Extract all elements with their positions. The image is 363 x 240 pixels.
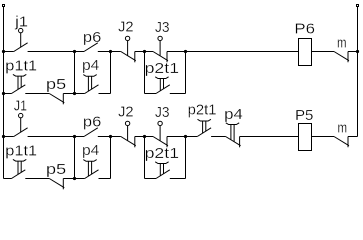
wire rung1 branch segments <box>4 93 186 95</box>
svg-text:m: m <box>337 34 347 51</box>
contact p5 (NC) rung1 <box>49 94 64 105</box>
contact m (NC) rung2 <box>334 137 349 148</box>
right power rail L2 <box>357 5 359 137</box>
wire rung1 main segments <box>4 51 358 53</box>
contact p5 (NC) rung2 <box>49 179 64 190</box>
svg-text:J3: J3 <box>155 19 170 36</box>
pushbutton contact J3 (NC) rung1 <box>153 36 168 62</box>
svg-text:J1: J1 <box>14 97 27 114</box>
svg-text:p5: p5 <box>46 76 66 93</box>
svg-text:p2t1: p2t1 <box>145 145 179 162</box>
svg-text:p4: p4 <box>82 57 99 74</box>
timed contact p2t1 (NO, delay) rung2 branch <box>155 162 170 179</box>
svg-text:p1t1: p1t1 <box>5 142 37 159</box>
left power rail L1 <box>3 5 5 179</box>
svg-text:p1t1: p1t1 <box>5 57 37 74</box>
wire rung2 main segments <box>4 136 358 138</box>
timed contact p1t1 (NO, delay) rung1 <box>12 74 27 93</box>
svg-text:p6: p6 <box>83 29 101 46</box>
svg-text:p4: p4 <box>224 106 243 123</box>
svg-text:p2t1: p2t1 <box>145 60 179 77</box>
junction dots rung1 <box>2 50 359 95</box>
timed contact p4 (NO, delay) rung2 branch <box>83 160 98 179</box>
contact m (NC) rung1 <box>334 52 349 63</box>
contact p6 (NO) rung1 <box>84 43 98 52</box>
svg-text:J3: J3 <box>155 104 170 121</box>
svg-text:j1: j1 <box>14 13 28 30</box>
svg-text:p6: p6 <box>83 114 101 131</box>
branch vertical wires rung2 <box>75 137 186 179</box>
pushbutton contact J2 (NC) rung1 <box>121 36 136 62</box>
coil P6 <box>299 39 312 66</box>
svg-text:P5: P5 <box>295 107 313 124</box>
timed contact p1t1 (NO, delay) rung2 <box>12 159 27 178</box>
svg-text:J2: J2 <box>118 19 134 36</box>
svg-text:P6: P6 <box>294 21 315 38</box>
contact p6 (NO) rung2 <box>84 128 98 137</box>
pushbutton contact J2 (NC) rung2 <box>121 121 136 147</box>
pushbutton contact J1 (NO) rung2 <box>14 113 28 136</box>
timed contact p4 (NC, delay) rung2 main <box>226 123 241 148</box>
svg-text:J2: J2 <box>118 104 134 121</box>
timed contact p4 (NO, delay) rung1 branch <box>83 75 98 94</box>
timed contact p2t1 (NO, delay) rung1 branch <box>155 77 170 94</box>
svg-text:p4: p4 <box>82 142 99 159</box>
pushbutton contact j1 (NO) rung1 <box>14 28 28 51</box>
coil P5 <box>299 124 312 151</box>
branch vertical wires rung1 <box>75 52 186 94</box>
junction dots rung2 <box>2 135 187 180</box>
svg-text:p2t1: p2t1 <box>188 102 217 119</box>
timed contact p2t1 (NO, delay) rung2 main <box>197 119 211 136</box>
svg-text:p5: p5 <box>46 161 66 178</box>
wire rung2 branch segments <box>4 178 186 180</box>
svg-text:m: m <box>337 119 347 136</box>
pushbutton contact J3 (NC) rung2 <box>153 121 168 147</box>
